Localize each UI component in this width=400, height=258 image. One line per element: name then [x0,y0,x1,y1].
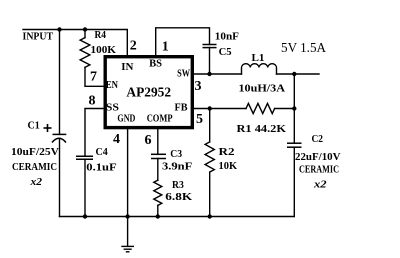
capacitor C4 plates [76,156,93,159]
plus sign C1 [44,124,52,132]
capacitor C3 plates [151,154,166,158]
wire C1 bottom to rail [59,139,61,217]
capacitor C1 plates [52,134,66,142]
junction node SW/C5 [207,72,211,76]
svg-text:22uF/10V: 22uF/10V [295,151,341,163]
wire R2 top [209,109,211,142]
wire C1 branch upper [59,30,61,135]
svg-text:R1 44.2K: R1 44.2K [237,123,287,135]
svg-text:8: 8 [89,94,96,109]
svg-text:BS: BS [149,58,162,70]
svg-text:INPUT: INPUT [23,31,54,43]
svg-text:5: 5 [196,112,203,127]
resistor R3 [154,180,162,205]
wire C4 bottom to rail [84,159,86,216]
svg-text:C4: C4 [96,146,109,158]
wire ground stub [127,217,129,247]
svg-text:FB: FB [175,102,189,114]
wire SW pin3 to L1 [194,73,242,75]
svg-text:6.8K: 6.8K [165,191,192,203]
svg-text:L1: L1 [252,52,265,64]
resistor R1 [246,103,275,113]
wire bottom rail [60,216,295,218]
junction node rail/C4 [83,214,87,218]
svg-text:3: 3 [195,79,202,94]
wire output down to C2 [293,74,295,143]
svg-text:2: 2 [130,39,137,54]
svg-text:10uH/3A: 10uH/3A [239,83,286,95]
svg-text:C1: C1 [28,120,40,132]
wire R4 top [84,30,86,38]
svg-text:EN: EN [106,79,118,91]
svg-text:C3: C3 [170,148,182,160]
svg-text:R3: R3 [172,179,184,191]
svg-text:1: 1 [162,40,169,55]
svg-text:10nF: 10nF [215,31,239,43]
svg-text:R2: R2 [219,146,236,158]
wire R2 bottom to rail [209,172,211,216]
svg-text:C5: C5 [219,46,232,58]
svg-text:5V 1.5A: 5V 1.5A [281,41,327,56]
wire GND pin4 to rail [127,129,129,217]
wire L1 to output [277,73,320,75]
svg-text:CERAMIC: CERAMIC [299,164,339,176]
svg-text:COMP: COMP [147,113,173,125]
IC U1 AP2952 body [105,57,192,128]
junction node rail/GND [125,214,129,218]
svg-text:x2: x2 [29,176,42,188]
svg-text:6: 6 [145,133,152,148]
wire FB pin5 [194,108,246,110]
svg-text:CERAMIC: CERAMIC [12,161,57,173]
wire input top rail [23,30,127,56]
resistor R4 [80,38,90,68]
junction node rail/R2 [208,214,212,218]
svg-text:10K: 10K [219,160,238,172]
svg-text:7: 7 [90,70,97,85]
capacitor C2 plates [287,143,302,147]
wire C5 bottom to SW node [209,48,211,74]
svg-text:C2: C2 [312,133,324,145]
svg-text:R4: R4 [95,29,107,41]
wire BS pin1 to C5 [156,28,210,56]
wire R3 bottom to rail [157,205,159,216]
capacitor C5 plates [203,45,217,48]
svg-text:AP2952: AP2952 [126,86,171,101]
svg-text:IN: IN [121,61,133,73]
svg-text:0.1uF: 0.1uF [86,161,117,173]
junction node FB/R2 [208,106,212,110]
wire R1 to output branch [275,108,295,110]
wire R4 bottom to EN pin7 [85,67,104,86]
wire COMP pin6 to C3 [157,129,159,154]
resistor R2 [205,142,214,172]
svg-text:x2: x2 [313,179,327,191]
wire C3 bottom to R3 [157,159,159,181]
svg-text:SW: SW [177,68,190,80]
wire C2 bottom to rail [293,147,295,216]
svg-text:3.9nF: 3.9nF [162,161,193,173]
junction node output/L1 [292,72,296,76]
svg-text:4: 4 [113,132,120,147]
junction node input/C1 [57,27,61,31]
svg-text:100K: 100K [91,44,117,56]
ground [121,246,134,251]
junction node input/R4 [83,27,87,31]
wire SS pin8 to C4 [85,109,104,157]
svg-text:10uF/25V: 10uF/25V [11,146,59,158]
junction node FB/output [292,106,296,110]
svg-text:GND: GND [117,113,135,125]
junction node rail/R3 [156,214,160,218]
inductor L1 [242,64,277,74]
